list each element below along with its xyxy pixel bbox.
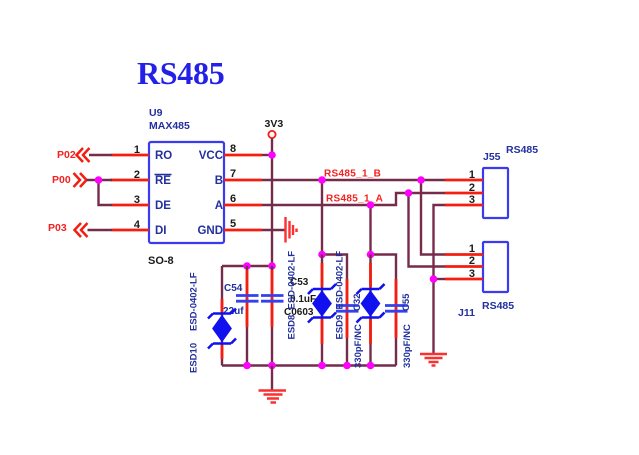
pin 6 stub: [224, 204, 262, 207]
svg-text:3V3: 3V3: [265, 118, 284, 130]
junction C54 top: [243, 262, 251, 270]
pin 4 stub: [112, 229, 150, 232]
wire P02 to pin1: [89, 154, 112, 156]
svg-text:3: 3: [134, 194, 140, 206]
wire GND net vertical J55 pin3 to ground: [434, 205, 446, 353]
ground (bottom earth): [259, 391, 287, 403]
junction VCC/3V3: [268, 151, 276, 159]
wire C54 column: [246, 266, 248, 366]
wire J11 pin3: [434, 278, 446, 280]
capacitor C53: [261, 296, 284, 302]
svg-text:VCC: VCC: [199, 150, 223, 162]
port P03: [48, 222, 88, 237]
junction ESD8 bottom: [318, 362, 326, 370]
J11 pin 3 stub: [445, 278, 483, 281]
junction ESD9 top: [367, 251, 375, 259]
wire ESD8 top link: [322, 255, 347, 366]
svg-text:DE: DE: [155, 200, 171, 212]
wire ESD10 column: [221, 266, 223, 366]
junction ESD8 top: [318, 251, 326, 259]
net RS485_1_A wire: [262, 193, 445, 205]
wire ESD9 column: [369, 255, 371, 366]
svg-text:RO: RO: [155, 150, 172, 162]
svg-text:U9: U9: [149, 107, 163, 119]
pin 8 stub: [224, 154, 262, 157]
svg-text:4: 4: [134, 219, 141, 231]
wire 3V3 vertical to decoupling bus: [271, 139, 273, 267]
J55 pin 1 stub: [445, 179, 483, 182]
pin name RE (with overline): [155, 175, 172, 188]
junction B drop: [318, 176, 326, 184]
svg-text:RE: RE: [155, 175, 171, 187]
junction C54 bottom: [243, 362, 251, 370]
TVS diode ESD10: [208, 309, 236, 349]
wire GND pin5 to earth: [262, 229, 285, 231]
svg-text:ESD-0402-LF: ESD-0402-LF: [189, 272, 200, 331]
pin 5 stub: [224, 229, 262, 232]
svg-text:P00: P00: [52, 174, 71, 186]
junction GND net at J11 pin3: [430, 275, 438, 283]
connector J55: [483, 168, 508, 218]
svg-text:C32: C32: [352, 294, 363, 311]
wire C53 column: [271, 266, 273, 366]
svg-text:B: B: [215, 175, 223, 187]
wire decoupling top bus: [222, 265, 272, 267]
svg-text:1: 1: [134, 144, 140, 156]
capacitor C54: [236, 296, 259, 302]
port P02: [57, 148, 90, 162]
wire ground bus bottom: [222, 364, 396, 366]
svg-text:J11: J11: [458, 307, 475, 319]
J55 pin 3 stub: [445, 204, 483, 207]
capacitor C55: [385, 306, 408, 312]
svg-text:C54: C54: [224, 283, 243, 294]
svg-text:2: 2: [469, 182, 475, 194]
svg-text:GND: GND: [197, 225, 223, 237]
J11 pin 2 stub: [445, 265, 483, 268]
net RS485_1_B wire: [262, 179, 445, 181]
TVS diode ESD9: [357, 284, 385, 323]
svg-text:ESD8: ESD8: [287, 315, 298, 340]
pin 2 stub: [111, 179, 150, 182]
svg-text:RS485: RS485: [137, 55, 224, 91]
svg-text:C55: C55: [401, 293, 412, 311]
wire P00 to pin2: [87, 179, 113, 181]
J55 pin 2 stub: [445, 192, 483, 195]
wire A to J11 pin2: [409, 193, 446, 267]
svg-text:6: 6: [230, 193, 236, 205]
svg-text:J55: J55: [483, 151, 501, 163]
wire ESD8 column: [321, 255, 323, 366]
capacitor C32: [336, 306, 359, 312]
svg-text:ESD-0402-LF: ESD-0402-LF: [335, 251, 346, 310]
svg-text:SO-8: SO-8: [148, 255, 174, 267]
J11 pin 1 stub: [445, 253, 483, 256]
ground (sideways earth at pin5): [286, 217, 297, 243]
svg-text:1: 1: [469, 243, 475, 255]
svg-text:330pF/NC: 330pF/NC: [402, 324, 413, 368]
svg-text:7: 7: [230, 168, 236, 180]
op-amp U1: IC U9 MAX485 body: [149, 142, 224, 243]
svg-text:MAX485: MAX485: [149, 120, 190, 132]
svg-text:5: 5: [230, 218, 236, 230]
ground (right earth): [420, 354, 447, 366]
svg-text:RS485: RS485: [506, 144, 538, 156]
wire branch P00 down to pin3: [99, 180, 113, 205]
TVS diode ESD8: [308, 284, 336, 323]
svg-text:P02: P02: [57, 149, 76, 161]
svg-text:3: 3: [469, 194, 475, 206]
svg-text:RS485: RS485: [482, 300, 514, 312]
junction A J11 branch: [405, 189, 413, 197]
pin 7 stub: [224, 179, 262, 182]
wire A drop to ESD9 group: [369, 205, 371, 255]
svg-text:DI: DI: [155, 225, 167, 237]
svg-text:ESD-0402-LF: ESD-0402-LF: [287, 251, 298, 310]
svg-text:P03: P03: [48, 222, 67, 234]
svg-text:330pF/NC: 330pF/NC: [353, 324, 364, 368]
junction at P00 branch: [95, 176, 103, 184]
svg-text:RS485_1_A: RS485_1_A: [326, 194, 383, 205]
wire B drop to ESD8 group: [321, 180, 323, 255]
svg-text:ESD9: ESD9: [335, 315, 346, 340]
junction B J11 branch: [417, 176, 425, 184]
junction ESD9 bottom: [367, 362, 375, 370]
wire VCC to 3V3: [262, 154, 272, 156]
junction C32 bottom: [343, 362, 351, 370]
pin stubs red segments on columns: [222, 263, 396, 359]
wire ground stub bottom: [271, 366, 273, 391]
svg-text:8: 8: [230, 143, 236, 155]
junction C53 top: [268, 262, 276, 270]
svg-text:RS485_1_B: RS485_1_B: [324, 169, 381, 180]
svg-text:1: 1: [469, 169, 475, 181]
svg-text:2: 2: [134, 169, 140, 181]
svg-text:ESD10: ESD10: [189, 343, 200, 373]
pin 3 stub: [112, 204, 150, 207]
wire B to J11 pin1: [421, 180, 445, 255]
junction A drop: [367, 201, 375, 209]
port P00: [52, 173, 87, 187]
svg-text:A: A: [215, 200, 223, 212]
power 3V3: [265, 118, 284, 138]
pin 1 stub: [112, 154, 150, 157]
svg-text:3: 3: [469, 268, 475, 280]
wire P03 to pin4: [88, 229, 113, 231]
svg-text:2: 2: [469, 255, 475, 267]
wire ESD9 top link: [371, 255, 397, 366]
junction C53 bottom: [268, 362, 276, 370]
connector J11: [483, 242, 508, 292]
